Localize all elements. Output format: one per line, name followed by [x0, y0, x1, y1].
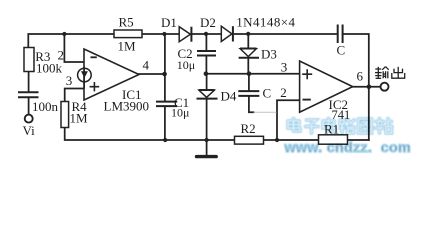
svg-text:Vi: Vi [23, 123, 36, 138]
svg-text:6: 6 [357, 69, 364, 84]
svg-text:2: 2 [280, 85, 287, 100]
svg-text:3: 3 [66, 73, 73, 88]
svg-text:R5: R5 [119, 15, 134, 30]
svg-text:3: 3 [281, 60, 288, 75]
svg-text:D3: D3 [261, 47, 277, 62]
svg-text:2: 2 [58, 48, 65, 63]
svg-text:1M: 1M [118, 39, 137, 54]
svg-text:100n: 100n [32, 99, 59, 114]
svg-text:1N4148×4: 1N4148×4 [236, 15, 295, 30]
svg-text:D1: D1 [161, 15, 177, 30]
svg-text:C: C [263, 86, 272, 101]
svg-text:C: C [337, 43, 346, 58]
svg-text:100k: 100k [36, 61, 63, 76]
svg-text:1M: 1M [70, 111, 89, 126]
svg-text:R2: R2 [241, 121, 256, 136]
svg-text:www. cndzz. com: www. cndzz. com [284, 140, 411, 156]
svg-text:4: 4 [143, 58, 150, 73]
svg-text:LM3900: LM3900 [104, 99, 150, 114]
svg-text:10μ: 10μ [177, 58, 195, 72]
svg-text:D2: D2 [200, 15, 216, 30]
svg-text:D4: D4 [221, 89, 237, 104]
svg-text:10μ: 10μ [171, 106, 189, 120]
